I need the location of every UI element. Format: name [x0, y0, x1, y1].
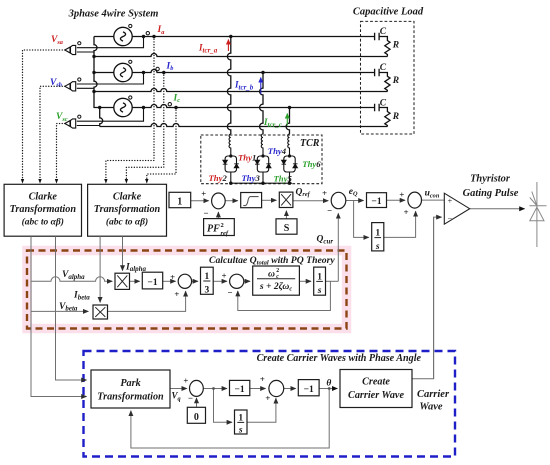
svg-text:R: R [392, 112, 399, 122]
svg-text:Transformation: Transformation [97, 391, 164, 402]
svg-text:−1: −1 [147, 278, 157, 288]
svg-text:Transformation: Transformation [94, 204, 161, 215]
svg-text:+: + [265, 393, 270, 403]
svg-text:Create Carrier Waves with Phas: Create Carrier Waves with Phase Angle [257, 353, 422, 364]
svg-text:Thyristor: Thyristor [470, 174, 511, 185]
svg-text:Park: Park [120, 378, 141, 389]
svg-text:+: + [399, 190, 404, 200]
svg-text:Thy3: Thy3 [242, 173, 261, 183]
svg-text:s: s [375, 242, 380, 252]
svg-text:+: + [221, 271, 226, 281]
svg-text:(abc to αβ): (abc to αβ) [22, 217, 64, 228]
svg-text:−: − [203, 208, 208, 218]
svg-text:3phase 4wire System: 3phase 4wire System [68, 9, 159, 20]
svg-text:+: + [403, 207, 408, 217]
svg-text:Thy4: Thy4 [268, 146, 287, 156]
svg-text:C: C [380, 27, 387, 37]
svg-text:Transformation: Transformation [10, 204, 77, 215]
svg-text:θ: θ [326, 378, 331, 388]
svg-text:+: + [322, 188, 327, 198]
svg-text:1: 1 [317, 272, 322, 282]
svg-text:+: + [170, 272, 175, 282]
svg-text:Thy5: Thy5 [274, 173, 293, 183]
svg-text:Create: Create [362, 377, 390, 388]
svg-text:+: + [260, 374, 265, 384]
svg-text:ω: ω [268, 269, 275, 280]
svg-text:2: 2 [221, 222, 224, 229]
svg-text:s: s [238, 426, 243, 436]
svg-text:−: − [448, 214, 453, 224]
svg-text:−1: −1 [235, 385, 245, 395]
svg-text:c: c [276, 274, 279, 280]
svg-text:−1: −1 [371, 197, 381, 207]
svg-text:Clarke: Clarke [113, 192, 142, 203]
svg-text:+: + [448, 196, 453, 206]
svg-text:1: 1 [177, 196, 182, 207]
svg-text:Thy2: Thy2 [209, 173, 228, 183]
svg-text:0: 0 [194, 412, 199, 423]
svg-text:Carrier Wave: Carrier Wave [348, 390, 404, 401]
svg-text:R: R [392, 76, 399, 86]
svg-text:Wave: Wave [419, 402, 442, 413]
svg-text:Calcultae Qtotal with PQ Theor: Calcultae Qtotal with PQ Theory [209, 255, 335, 267]
svg-text:(abc to αβ): (abc to αβ) [106, 217, 148, 228]
svg-text:2: 2 [276, 268, 279, 274]
svg-text:3: 3 [205, 285, 210, 295]
svg-text:Capacitive Load: Capacitive Load [353, 7, 424, 18]
svg-text:1: 1 [205, 272, 210, 282]
svg-text:+: + [183, 375, 188, 385]
svg-text:−: − [188, 393, 193, 403]
svg-text:+: + [174, 289, 179, 299]
svg-text:Gating Pulse: Gating Pulse [463, 188, 519, 199]
svg-text:Clarke: Clarke [29, 192, 58, 203]
svg-text:PF: PF [207, 224, 220, 235]
svg-text:+: + [201, 189, 206, 199]
svg-text:1: 1 [375, 228, 380, 238]
svg-text:Thy6: Thy6 [302, 159, 321, 169]
svg-text:R: R [392, 40, 399, 50]
svg-text:−: − [227, 287, 232, 297]
svg-text:Thy1: Thy1 [238, 152, 256, 162]
svg-text:s + 2ζωc: s + 2ζωc [259, 281, 292, 293]
svg-text:Carrier: Carrier [417, 389, 450, 400]
svg-text:TCR: TCR [300, 138, 320, 149]
svg-text:s: s [317, 286, 322, 296]
svg-text:S: S [284, 223, 290, 234]
svg-text:C: C [380, 99, 387, 109]
svg-text:−: − [327, 205, 332, 215]
svg-text:1: 1 [238, 413, 243, 423]
svg-text:−1: −1 [304, 385, 314, 395]
svg-text:C: C [380, 63, 387, 73]
svg-text:ref: ref [221, 230, 229, 237]
